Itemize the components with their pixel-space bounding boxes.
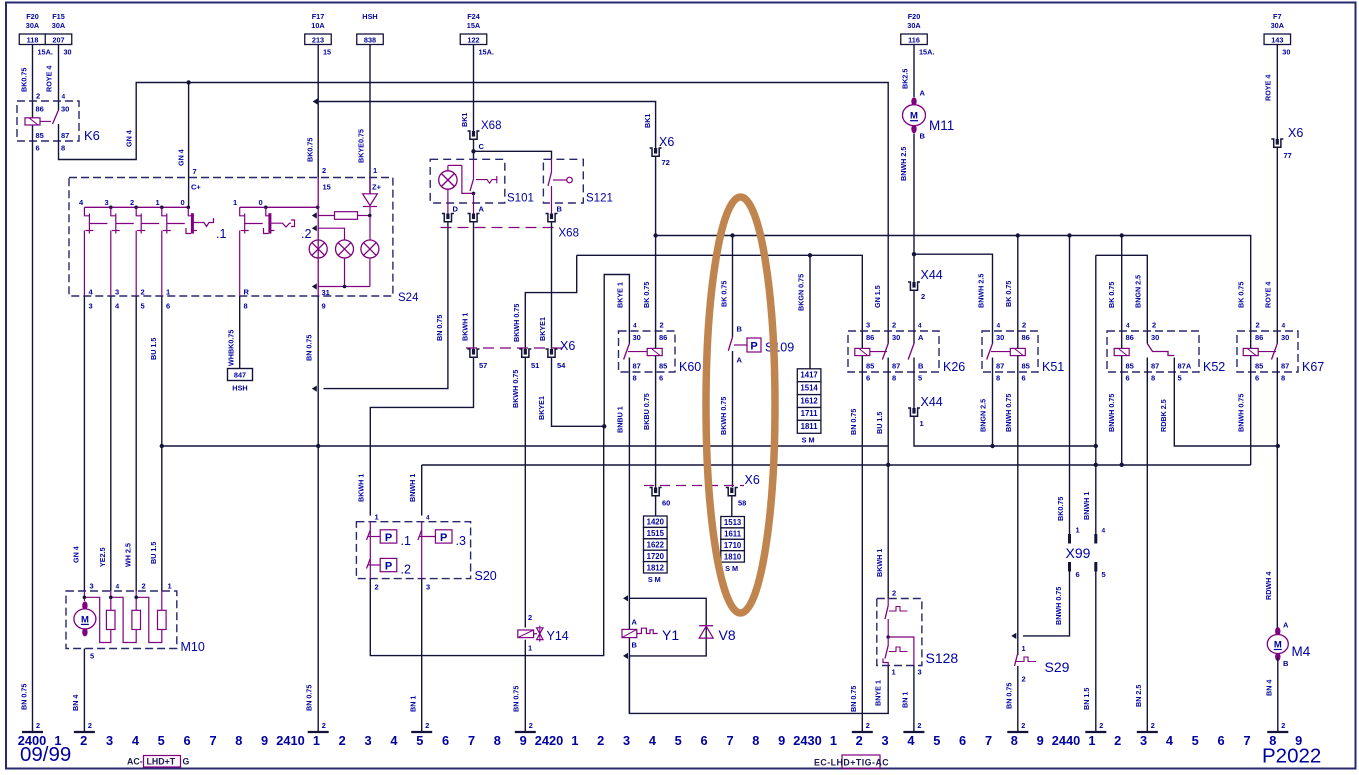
svg-text:B: B	[737, 325, 743, 334]
svg-text:6: 6	[1126, 374, 1130, 383]
relay K60 box	[619, 331, 676, 372]
S101 elbow lamp-switch	[462, 165, 474, 193]
svg-text:58: 58	[738, 499, 746, 508]
svg-text:4: 4	[1102, 528, 1106, 535]
svg-text:X6: X6	[659, 135, 674, 149]
svg-text:BN 0.75: BN 0.75	[304, 685, 313, 711]
S20 contact .2	[367, 559, 371, 569]
svg-text:6: 6	[1022, 374, 1026, 383]
wire 1417 box feed	[809, 255, 811, 368]
wire X6-57 to S20 pin 1	[370, 357, 473, 515]
svg-text:4: 4	[633, 323, 637, 330]
svg-text:4: 4	[907, 733, 915, 748]
svg-text:77: 77	[1284, 151, 1292, 160]
svg-text:86: 86	[659, 333, 667, 342]
svg-text:HSH: HSH	[232, 384, 247, 393]
connector X99 pin 4 dash	[1094, 534, 1097, 544]
wire K51 pin 6 to S29	[1017, 372, 1019, 655]
svg-text:7: 7	[193, 167, 197, 176]
svg-text:1710: 1710	[724, 541, 742, 550]
junction GN bus to S24 C+	[186, 80, 190, 84]
svg-text:BKYE 1: BKYE 1	[615, 282, 624, 308]
svg-text:BN 0.75: BN 0.75	[304, 335, 313, 361]
pressure switch S109 contact	[728, 337, 732, 351]
ground 2430-2 K26	[852, 731, 873, 733]
junction S24 lamp return junction middle	[343, 285, 347, 289]
svg-text:2: 2	[425, 721, 429, 730]
svg-text:8: 8	[61, 144, 65, 153]
svg-text:1: 1	[1088, 733, 1095, 748]
wire F15 fuse 207 to K6 pin 30	[58, 45, 60, 102]
svg-text:A: A	[918, 333, 924, 342]
wire K52 pin 5 to M4 wire	[1174, 372, 1278, 446]
svg-text:2: 2	[36, 721, 40, 730]
svg-text:1611: 1611	[724, 530, 742, 539]
svg-text:S109: S109	[765, 341, 794, 355]
svg-text:C: C	[479, 142, 485, 151]
svg-text:0: 0	[181, 198, 185, 207]
svg-text:86: 86	[1255, 333, 1263, 342]
svg-text:BKWH 0.75: BKWH 0.75	[511, 370, 520, 408]
svg-text:3: 3	[89, 302, 93, 311]
S24 lamp return wires	[344, 258, 346, 287]
svg-text:M: M	[1274, 639, 1282, 650]
svg-text:6: 6	[659, 374, 663, 383]
connector row X6 58-60 dashed	[644, 485, 744, 487]
wire K52 pin 8 to ground 2440-3	[1146, 372, 1148, 732]
switch S24 .2 wiper	[266, 207, 270, 216]
wire S24 pin 8 to 847	[239, 296, 241, 369]
svg-text:87: 87	[61, 131, 69, 140]
junction M10 junction 2	[134, 596, 138, 600]
connector X99 pin 1 dash	[1068, 534, 1071, 544]
connector stack 1417 SM	[797, 369, 821, 382]
svg-text:2: 2	[892, 321, 896, 330]
svg-text:.2: .2	[401, 563, 411, 577]
svg-text:6: 6	[866, 374, 870, 383]
relay K26 box	[848, 331, 939, 372]
svg-text:BK 0.75: BK 0.75	[1004, 281, 1013, 307]
wire X6-54 to BKYE1 junction	[552, 357, 605, 426]
svg-text:3: 3	[365, 733, 372, 748]
wire S121 B to X6-54	[551, 222, 553, 349]
svg-text:1: 1	[1022, 644, 1026, 653]
svg-text:2: 2	[1022, 675, 1026, 684]
svg-text:BNWH 1: BNWH 1	[408, 474, 417, 502]
svg-text:15: 15	[323, 48, 331, 57]
wire feed to S121	[474, 151, 552, 159]
relay K6 contact	[53, 110, 59, 124]
svg-text:7: 7	[726, 733, 733, 748]
relay K51 coil	[1010, 348, 1025, 355]
svg-text:9: 9	[520, 733, 527, 748]
wire K6 contact lead 30	[58, 101, 60, 110]
junction M10 junction 3	[83, 596, 87, 600]
svg-text:BK 0.75: BK 0.75	[642, 282, 651, 308]
svg-text:BN 1: BN 1	[408, 696, 417, 712]
junction S24 diode-resistor junction	[368, 214, 372, 218]
svg-text:M: M	[910, 111, 918, 122]
wire K52 30 feed loop	[1096, 255, 1148, 331]
svg-text:60: 60	[662, 499, 670, 508]
svg-text:1515: 1515	[647, 529, 665, 538]
lamp in S101	[439, 171, 457, 189]
svg-text:BNWH 2.5: BNWH 2.5	[899, 147, 908, 181]
svg-text:30A: 30A	[26, 21, 40, 30]
relay K51 contact	[987, 344, 993, 360]
svg-text:P: P	[385, 560, 392, 572]
svg-text:K67: K67	[1302, 360, 1324, 374]
wire bus y255 left segment	[577, 255, 863, 331]
wire K51 86 feed	[1017, 236, 1019, 332]
svg-text:K6: K6	[84, 128, 100, 143]
svg-text:4: 4	[62, 94, 66, 101]
connector X99 pin 5 dash	[1094, 562, 1097, 572]
svg-text:M10: M10	[181, 640, 205, 654]
svg-text:87: 87	[1281, 362, 1289, 371]
ground 2440-1 X99	[1085, 731, 1106, 733]
switch S101 box	[430, 159, 505, 203]
resistor M10 r1	[106, 610, 115, 629]
svg-text:BN 2.5: BN 2.5	[1134, 685, 1143, 707]
motor M10 symbol	[82, 601, 87, 610]
wire K60 pin 6 to X6-60	[655, 372, 657, 488]
junction S24 .1 rail tap	[134, 206, 138, 210]
svg-text:87: 87	[633, 362, 641, 371]
svg-text:B: B	[557, 205, 563, 214]
wire S24 pin 9 down to ground 2410-1	[317, 296, 319, 732]
svg-text:6: 6	[1218, 733, 1225, 748]
wire K67 30 stub	[1276, 331, 1278, 344]
ground 2400-2 M10	[74, 731, 95, 733]
connector X6 pin 60	[650, 488, 662, 496]
junction K52 pin5 wire joins M4 wire	[1276, 444, 1280, 448]
svg-text:X68: X68	[481, 120, 501, 132]
svg-text:6: 6	[166, 302, 170, 311]
switch S24 contact pos4	[84, 207, 89, 216]
svg-text:4: 4	[1282, 323, 1286, 330]
svg-text:GN 4: GN 4	[71, 546, 80, 563]
svg-text:15A.: 15A.	[919, 48, 934, 57]
wire bus y465	[422, 464, 1251, 466]
svg-text:2: 2	[921, 292, 925, 301]
relay K26 contact A	[908, 344, 914, 360]
svg-text:F24: F24	[467, 12, 481, 21]
svg-text:BN 0.75: BN 0.75	[19, 684, 28, 710]
S128 lower contact	[888, 637, 914, 666]
wire F7 fuse 143 to X6-77	[1276, 45, 1278, 140]
connector X44 pin 2	[908, 282, 920, 290]
connector X68 pin A	[468, 214, 480, 222]
svg-text:30: 30	[64, 48, 72, 57]
S128 upper contact	[887, 599, 889, 606]
svg-text:4: 4	[997, 323, 1001, 330]
svg-text:S20: S20	[475, 569, 497, 583]
svg-text:BKWH 0.75: BKWH 0.75	[719, 397, 728, 435]
svg-text:122: 122	[467, 35, 479, 44]
svg-text:X6: X6	[745, 473, 760, 487]
ground 2440-8 M4	[1267, 731, 1288, 733]
svg-text:85: 85	[866, 362, 874, 371]
lamp S24 left	[309, 240, 327, 258]
svg-text:4: 4	[426, 515, 430, 522]
svg-text:2: 2	[1021, 721, 1025, 730]
svg-text:5: 5	[1192, 733, 1199, 748]
svg-text:.3: .3	[456, 534, 466, 548]
svg-text:F15: F15	[52, 12, 65, 21]
svg-text:BU 1.5: BU 1.5	[875, 412, 884, 434]
svg-text:V8: V8	[719, 627, 736, 643]
connector X6 pin 58	[726, 488, 738, 496]
relay K60 link	[628, 351, 647, 353]
svg-text:BN 0.75: BN 0.75	[849, 686, 858, 712]
svg-text:6: 6	[1255, 374, 1259, 383]
svg-text:54: 54	[557, 361, 566, 370]
relay K26 link	[870, 351, 887, 353]
svg-text:BKWH 0.75: BKWH 0.75	[512, 304, 521, 342]
svg-text:ROYE 4: ROYE 4	[1263, 75, 1272, 101]
svg-text:1: 1	[528, 644, 532, 653]
svg-text:C+: C+	[191, 183, 201, 192]
pressure sensor S20 .3	[435, 530, 452, 543]
svg-text:EC-LHD+TIG-AC: EC-LHD+TIG-AC	[814, 758, 889, 768]
svg-text:1: 1	[166, 288, 170, 297]
wire K51 30 stub	[992, 331, 994, 344]
svg-text:BN 0.75: BN 0.75	[435, 315, 444, 341]
svg-text:K60: K60	[679, 360, 701, 374]
svg-text:4: 4	[116, 584, 120, 591]
svg-text:847: 847	[234, 371, 246, 380]
svg-text:BKWH 1: BKWH 1	[356, 474, 365, 502]
svg-text:LHD+T: LHD+T	[147, 757, 176, 767]
svg-text:30: 30	[1282, 48, 1290, 57]
svg-text:6: 6	[184, 733, 191, 748]
svg-text:2440: 2440	[1052, 733, 1080, 748]
svg-text:P2022: P2022	[1262, 745, 1321, 768]
svg-text:8: 8	[1151, 374, 1155, 383]
wire K26 85 stub	[861, 356, 863, 372]
svg-text:8: 8	[235, 733, 242, 748]
svg-text:1: 1	[168, 582, 172, 591]
wire S29 to ground 2430-8	[1017, 666, 1019, 732]
svg-text:HSH: HSH	[362, 12, 377, 21]
connector X68 pin D	[442, 214, 454, 222]
svg-text:8: 8	[244, 302, 248, 311]
relay K67 box	[1237, 331, 1298, 372]
svg-text:2: 2	[80, 733, 87, 748]
wire Y1 box bottom to S128 pin 1	[629, 656, 888, 714]
svg-text:8: 8	[1281, 374, 1285, 383]
svg-text:G: G	[183, 757, 190, 767]
switch contact S121	[551, 159, 553, 172]
svg-text:1: 1	[1076, 526, 1080, 535]
wire K26 pin 5 to X44-1	[913, 372, 915, 408]
wire K60 87 stub	[628, 358, 630, 373]
wire F17 fuse 213 to S24 pin 15	[317, 45, 319, 178]
svg-text:2: 2	[917, 721, 921, 730]
junction X44 seg joins riser	[1094, 444, 1098, 448]
wire M11 B to X44-2 and K26 A	[913, 134, 915, 283]
svg-text:BN 4: BN 4	[1264, 680, 1273, 696]
wire K6 coil lead 86	[32, 101, 34, 118]
connector row X6 dashed	[466, 347, 562, 349]
svg-text:15: 15	[323, 183, 331, 192]
svg-text:9: 9	[1037, 733, 1044, 748]
solenoid valve Y14	[518, 630, 534, 638]
pressure switch S109 P box	[734, 344, 747, 346]
wire K51 85 stub	[1017, 356, 1019, 372]
relay K67 coil	[1243, 348, 1258, 355]
wire bus y101 F17 to X6-72	[319, 102, 656, 149]
resistor M10 r3	[158, 610, 167, 629]
svg-text:8: 8	[892, 374, 896, 383]
svg-text:2: 2	[1099, 721, 1103, 730]
junction arrow Y1 box top joins K60.8 wire	[623, 595, 628, 601]
wire K52.30 riser	[1095, 255, 1097, 534]
svg-text:2: 2	[660, 321, 664, 330]
svg-text:7: 7	[209, 733, 216, 748]
svg-text:RDWH 4: RDWH 4	[1264, 572, 1273, 600]
junction arrow y101 bus into F17 wire	[313, 98, 318, 104]
svg-text:.1: .1	[216, 227, 226, 241]
junction arrow S24 resistor junction	[312, 212, 317, 218]
svg-text:2410: 2410	[276, 733, 304, 748]
svg-text:BN 1: BN 1	[900, 692, 909, 708]
wire bus y446 left	[162, 445, 888, 447]
wire S109 B drop	[732, 236, 734, 338]
svg-text:A: A	[1283, 621, 1289, 630]
wire S109 A to X6-58	[732, 351, 734, 487]
svg-text:87A: 87A	[1178, 362, 1192, 371]
relay K51 box	[982, 331, 1038, 372]
svg-text:5: 5	[416, 733, 423, 748]
relay K60 coil	[647, 348, 662, 355]
wire F20 fuse 118 to K6 pin 86	[32, 45, 34, 102]
svg-text:6: 6	[959, 733, 966, 748]
motor M4	[1275, 627, 1280, 636]
svg-text:4: 4	[132, 733, 140, 748]
svg-text:6: 6	[1076, 570, 1080, 579]
svg-text:BNWH 0.75: BNWH 0.75	[1236, 394, 1245, 432]
svg-text:30A: 30A	[1271, 21, 1285, 30]
svg-text:9: 9	[261, 733, 268, 748]
junction S24 .1 rail tap	[109, 206, 113, 210]
svg-text:1: 1	[156, 198, 160, 207]
svg-text:S101: S101	[507, 193, 534, 205]
S24 lamp2 feed jog	[318, 228, 344, 240]
wire K52 85 stub	[1121, 356, 1123, 372]
svg-text:85: 85	[1255, 362, 1263, 371]
wire S24 pin 3 to M10 pin 3	[83, 296, 85, 591]
svg-text:.2: .2	[301, 227, 311, 241]
M10 internal wires	[83, 591, 85, 601]
svg-text:S29: S29	[1045, 659, 1070, 675]
junction BKYE1 junction	[602, 424, 606, 428]
S20 pin1 internal wire	[369, 522, 371, 579]
switch S24 contact pos2	[136, 207, 141, 216]
svg-text:4: 4	[1166, 733, 1174, 748]
wire S24 pin 4 to M10 pin 4	[110, 296, 112, 591]
svg-text:6: 6	[701, 733, 708, 748]
lamp S24 middle	[336, 240, 354, 258]
S20 pin4 internal wire	[421, 522, 423, 579]
svg-text:2: 2	[142, 582, 146, 591]
svg-text:X6: X6	[560, 339, 575, 353]
wire X99-5 to ground 2440-1	[1095, 572, 1097, 733]
svg-text:2: 2	[322, 721, 326, 730]
svg-text:6: 6	[36, 144, 40, 153]
wire S20 pin 3 to ground 2410-5	[421, 579, 423, 732]
svg-text:BU 1.5: BU 1.5	[149, 338, 158, 360]
junction S24 .2 rail to lamp wire	[316, 206, 320, 210]
svg-text:87: 87	[1151, 362, 1159, 371]
junction S24 .2 rail tap	[264, 206, 268, 210]
svg-text:X44: X44	[921, 268, 943, 282]
svg-text:2: 2	[375, 583, 379, 592]
svg-text:YE2.5: YE2.5	[98, 547, 107, 567]
svg-text:4: 4	[649, 733, 657, 748]
wire X68-C to S101	[473, 139, 475, 159]
junction arrow S24 lamp return junction	[312, 283, 317, 289]
svg-text:B: B	[1283, 659, 1289, 668]
relay K52 box	[1107, 331, 1199, 372]
svg-text:3: 3	[918, 668, 922, 677]
svg-text:8: 8	[752, 733, 759, 748]
wire K67 pin 6 to bus y465	[1250, 372, 1252, 465]
svg-text:1420: 1420	[647, 518, 665, 527]
svg-text:B: B	[920, 132, 926, 141]
svg-text:118: 118	[27, 35, 39, 44]
svg-text:1: 1	[375, 513, 379, 522]
ground 2410-5 S20	[411, 731, 432, 733]
svg-text:R: R	[244, 288, 250, 297]
wire K67 pin 8 to M4	[1276, 372, 1278, 630]
svg-text:D: D	[453, 205, 459, 214]
wire M4 B to ground 2440-8	[1277, 657, 1279, 732]
svg-text:K52: K52	[1203, 360, 1225, 374]
svg-text:5: 5	[918, 374, 922, 383]
S101 switch to pin A	[473, 193, 475, 213]
motor unit M10 box	[66, 591, 177, 649]
junction S101 switch junction	[472, 192, 476, 196]
svg-text:BNWH 0.75: BNWH 0.75	[1054, 587, 1063, 625]
wire bus y254 right segment	[914, 254, 993, 331]
svg-text:1811: 1811	[801, 422, 819, 431]
svg-text:2: 2	[322, 166, 326, 175]
svg-text:3: 3	[866, 321, 870, 330]
svg-text:5: 5	[141, 302, 145, 311]
resistor M10 r2	[132, 610, 141, 629]
svg-text:2: 2	[88, 721, 92, 730]
svg-text:2420: 2420	[535, 733, 563, 748]
svg-text:10A: 10A	[311, 21, 325, 30]
wire X44-1 to bus y446	[914, 416, 1096, 446]
svg-text:85: 85	[1022, 362, 1030, 371]
relay K26 contact 30	[882, 344, 888, 360]
svg-text:F20: F20	[908, 12, 921, 21]
svg-text:0: 0	[259, 198, 263, 207]
junction S24 .1 rail tap	[187, 206, 191, 210]
svg-text:1417: 1417	[800, 371, 817, 380]
svg-text:SM: SM	[725, 564, 740, 573]
svg-text:2: 2	[1281, 721, 1285, 730]
svg-text:1: 1	[892, 668, 896, 677]
wire K6 pin 8 to GN bus	[59, 83, 889, 332]
wire K60 pin 8 to Y1 box	[628, 372, 630, 713]
svg-text:30: 30	[1151, 333, 1159, 342]
wire S24 pin 5 to M10 pin 2	[135, 296, 137, 591]
svg-text:2: 2	[141, 288, 145, 297]
